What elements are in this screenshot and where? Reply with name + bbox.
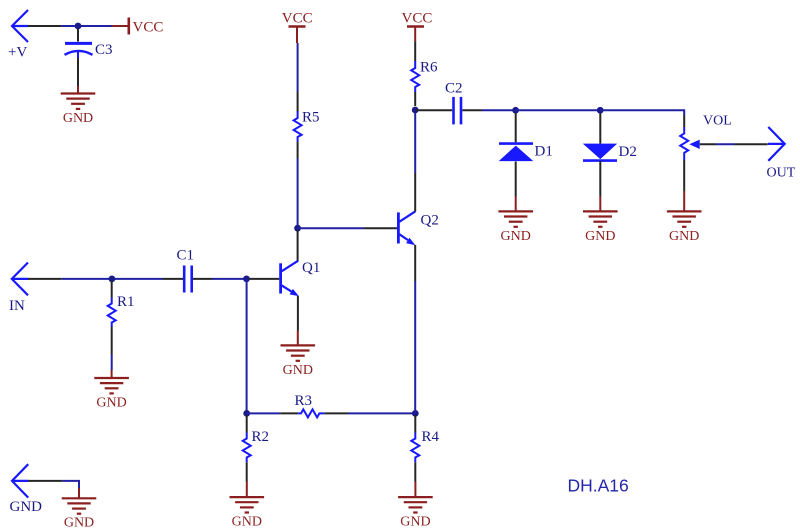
pin Q2 collector xyxy=(414,173,416,212)
pin xyxy=(246,415,248,433)
power port VCC (left) xyxy=(112,18,129,35)
svg-text:VCC: VCC xyxy=(282,10,313,26)
wire xyxy=(247,412,281,414)
pin xyxy=(414,92,416,106)
port IN xyxy=(12,263,29,296)
wire xyxy=(28,25,61,27)
wire xyxy=(298,227,364,229)
ground (under D1) xyxy=(498,197,533,227)
wire xyxy=(297,43,299,92)
wire xyxy=(62,481,79,488)
svg-text:VCC: VCC xyxy=(133,19,164,35)
svg-text:D2: D2 xyxy=(619,144,637,160)
transistor Q1 xyxy=(281,261,299,297)
ground (under D2) xyxy=(583,197,618,227)
node junction xyxy=(512,107,519,114)
svg-text:GND: GND xyxy=(501,229,531,244)
node junction xyxy=(109,276,116,283)
svg-text:Q2: Q2 xyxy=(421,212,439,228)
pin Q2 emitter xyxy=(414,245,416,281)
diode D2 xyxy=(583,144,617,161)
pin xyxy=(683,160,685,191)
capacitor C3 xyxy=(65,29,93,87)
ground (bottom left) xyxy=(62,488,97,514)
resistor R5 xyxy=(294,111,302,142)
wire xyxy=(246,279,248,414)
ground (under VOL) xyxy=(667,191,702,227)
pin D2 anode xyxy=(599,161,601,197)
wire xyxy=(414,110,416,173)
svg-text:R3: R3 xyxy=(295,393,313,409)
port +V xyxy=(12,10,29,42)
node junction xyxy=(412,410,419,417)
resistor R1 xyxy=(108,298,116,328)
wire xyxy=(716,143,735,145)
node junction xyxy=(294,225,301,232)
svg-text:+V: +V xyxy=(8,45,27,61)
wire xyxy=(600,110,684,115)
pin xyxy=(324,412,348,414)
wire xyxy=(111,355,113,371)
pin xyxy=(280,412,298,414)
ground (under R1) xyxy=(94,370,129,393)
pin xyxy=(297,92,299,112)
wire xyxy=(28,278,62,280)
svg-text:IN: IN xyxy=(9,298,25,314)
node junction xyxy=(243,276,250,283)
pin Q1 base xyxy=(249,278,279,280)
pin xyxy=(246,462,248,481)
svg-text:GND: GND xyxy=(232,515,262,530)
svg-text:GND: GND xyxy=(10,499,43,515)
svg-text:GND: GND xyxy=(669,229,699,244)
svg-text:GND: GND xyxy=(283,363,313,378)
capacitor C1 xyxy=(163,266,213,293)
svg-text:R2: R2 xyxy=(252,429,270,445)
wire xyxy=(28,480,62,482)
svg-text:GND: GND xyxy=(64,516,94,531)
wire xyxy=(62,278,163,280)
svg-text:GND: GND xyxy=(400,515,430,530)
svg-text:C1: C1 xyxy=(177,247,195,263)
wire xyxy=(212,278,247,280)
wire xyxy=(348,412,415,414)
power port VCC (right) xyxy=(407,27,424,42)
port GND (bottom left) xyxy=(12,464,29,497)
wire xyxy=(414,281,416,413)
ground (under R4) xyxy=(398,482,433,513)
pin xyxy=(414,462,416,481)
svg-text:R6: R6 xyxy=(420,60,438,76)
svg-text:Q1: Q1 xyxy=(302,260,320,276)
svg-text:GND: GND xyxy=(96,395,126,410)
svg-text:R5: R5 xyxy=(302,110,320,126)
ground (under R2) xyxy=(230,482,265,513)
resistor R4 xyxy=(411,433,419,463)
port OUT xyxy=(768,127,785,161)
resistor R3 xyxy=(298,409,324,417)
ground (under C3) xyxy=(61,86,96,109)
wire xyxy=(297,158,299,228)
pin xyxy=(111,281,113,298)
pin D1 anode xyxy=(515,113,517,142)
node junction xyxy=(75,23,82,30)
pin D1 cathode xyxy=(515,162,517,197)
wire xyxy=(61,25,111,27)
diode D1 xyxy=(499,144,534,162)
wire wiper xyxy=(700,143,716,145)
svg-text:C3: C3 xyxy=(95,42,113,58)
svg-text:OUT: OUT xyxy=(767,165,796,180)
potentiometer VOL xyxy=(680,127,700,160)
pin Q2 base xyxy=(364,227,397,229)
wire xyxy=(735,143,768,145)
resistor R6 xyxy=(411,61,419,92)
pin Q1 emitter xyxy=(297,296,299,331)
svg-text:GND: GND xyxy=(585,229,615,244)
node junction xyxy=(243,410,250,417)
power port VCC (middle) xyxy=(289,27,306,44)
svg-text:D1: D1 xyxy=(535,144,553,160)
pin xyxy=(414,415,416,433)
svg-text:VOL: VOL xyxy=(703,113,732,128)
pin xyxy=(414,41,416,61)
transistor Q2 xyxy=(398,211,415,245)
pin xyxy=(683,115,685,127)
svg-text:C2: C2 xyxy=(445,80,463,96)
pin Q1 collector xyxy=(297,230,299,262)
svg-text:VCC: VCC xyxy=(402,10,433,26)
pin xyxy=(111,327,113,355)
ground (under Q1) xyxy=(281,331,316,361)
wire xyxy=(482,109,516,111)
node junction xyxy=(597,107,604,114)
wire xyxy=(516,109,601,111)
resistor R2 xyxy=(243,433,251,463)
node junction xyxy=(412,107,419,114)
svg-text:GND: GND xyxy=(63,111,93,126)
pin xyxy=(297,142,299,158)
capacitor C2 xyxy=(416,97,482,125)
svg-text:R1: R1 xyxy=(117,294,135,310)
pin D2 cathode xyxy=(599,113,601,144)
svg-text:DH.A16: DH.A16 xyxy=(568,476,629,496)
svg-text:R4: R4 xyxy=(422,429,440,445)
